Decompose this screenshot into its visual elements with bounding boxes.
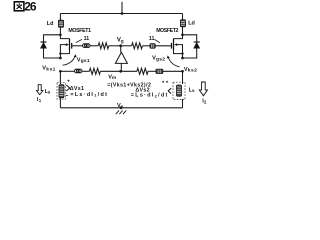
svg-text:s: s	[48, 90, 51, 95]
polarity marks Ls1	[66, 80, 70, 96]
svg-text:gs2: gs2	[156, 56, 165, 62]
inductor Ls2	[173, 82, 195, 108]
label Vks1	[42, 66, 56, 73]
node right diode junction	[181, 57, 184, 60]
node Vg	[119, 44, 122, 47]
svg-text:MOSFET2: MOSFET2	[156, 28, 178, 34]
MOSFET1	[59, 28, 91, 58]
polarity marks Ls2	[162, 81, 168, 83]
source sense line left	[60, 70, 74, 72]
top terminal stub	[121, 2, 123, 14]
node right sense junction	[181, 70, 184, 73]
wire left source down	[59, 71, 61, 84]
svg-text:MOSFET1: MOSFET1	[68, 28, 91, 34]
node Vm	[119, 70, 122, 73]
diode D2	[183, 35, 200, 58]
label Vks2	[184, 67, 197, 74]
wire left drain	[60, 27, 69, 38]
top rail	[60, 13, 182, 15]
MOSFET2	[156, 28, 184, 58]
inductor Ld1	[47, 14, 64, 28]
amplifier triangle	[115, 46, 127, 72]
svg-text:m: m	[112, 75, 116, 80]
node right drain junction	[181, 33, 184, 36]
Vgs2 arc	[152, 55, 180, 66]
brace delta Vs2	[168, 88, 171, 93]
resistor Rs2	[121, 68, 156, 74]
Vgs1 arc	[63, 54, 90, 65]
label delta Vs1	[70, 86, 108, 98]
gate inductor 11 right	[149, 36, 172, 48]
svg-text:1: 1	[39, 98, 42, 103]
wire right source down	[182, 71, 184, 84]
svg-text:26: 26	[24, 0, 37, 14]
label delta Vs2	[131, 87, 169, 98]
svg-text:s: s	[192, 88, 195, 93]
resistor Rg1	[90, 43, 121, 49]
source inductor left	[74, 69, 81, 73]
svg-text:11: 11	[84, 36, 90, 42]
arrow I2	[199, 82, 207, 105]
inductor Ls1	[45, 83, 66, 108]
inductor Ld2	[180, 14, 194, 27]
svg-text:Ld: Ld	[188, 21, 195, 27]
wire right drain	[174, 27, 183, 39]
figure title 図26	[14, 0, 37, 14]
svg-text:g: g	[121, 39, 124, 44]
node left drain junction	[59, 33, 62, 36]
svg-text:=Ls·dI1/dt: =Ls·dI1/dt	[70, 92, 108, 98]
resistor Rg2	[121, 43, 150, 49]
source inductor right	[156, 69, 183, 73]
resistor Rs1	[82, 68, 121, 74]
bottom rail	[60, 107, 182, 109]
svg-text:gs1: gs1	[81, 58, 90, 64]
ground	[116, 110, 126, 114]
svg-text:11: 11	[149, 36, 155, 42]
node left diode junction	[59, 57, 62, 60]
diode D1	[40, 35, 60, 58]
svg-text:Ld: Ld	[47, 21, 54, 27]
brace delta Vs1	[66, 85, 70, 91]
svg-text:ks2: ks2	[188, 68, 198, 74]
svg-text:=Ls·dI2/dt: =Ls·dI2/dt	[131, 93, 169, 99]
svg-text:s: s	[121, 104, 124, 109]
arrow I1	[37, 85, 43, 103]
svg-text:2: 2	[204, 99, 207, 104]
gate inductor 11 left	[72, 36, 90, 47]
node left sense junction	[59, 70, 62, 73]
node Vs	[120, 106, 123, 109]
svg-text:ks1: ks1	[46, 66, 56, 72]
node top junction	[121, 12, 124, 15]
